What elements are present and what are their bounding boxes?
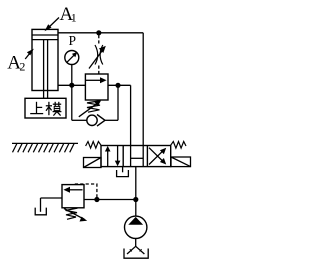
svg-text:2: 2: [19, 60, 25, 74]
svg-text:1: 1: [71, 11, 77, 25]
svg-text:P: P: [69, 33, 77, 48]
